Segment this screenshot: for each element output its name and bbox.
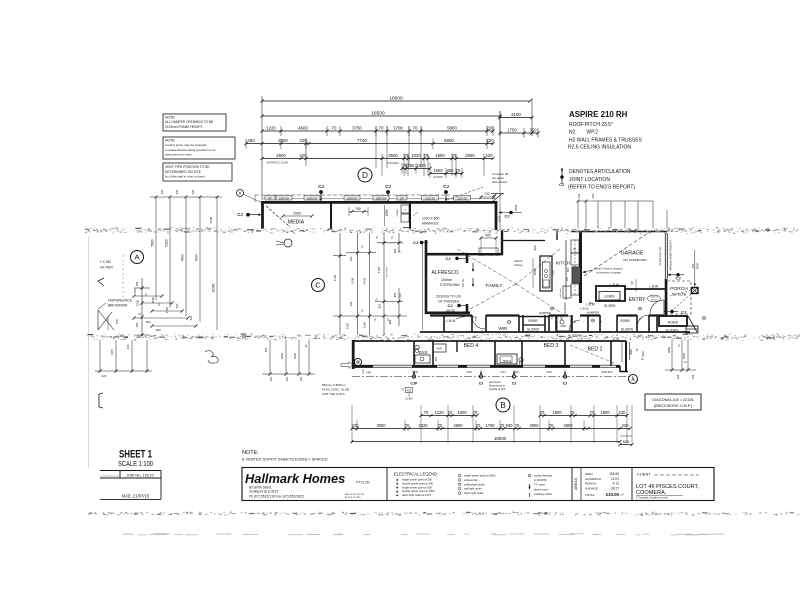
svg-text:6100: 6100 <box>165 239 169 246</box>
svg-text:12.01: 12.01 <box>611 477 619 481</box>
svg-text:o/hang: o/hang <box>514 263 523 267</box>
svg-text:70: 70 <box>500 423 505 428</box>
svg-text:220: 220 <box>676 374 680 379</box>
svg-text:220: 220 <box>189 315 193 320</box>
bedroom wing bottom wall <box>352 365 620 367</box>
svg-text:1800: 1800 <box>600 410 610 415</box>
svg-text:4160: 4160 <box>377 266 381 273</box>
svg-text:3500: 3500 <box>388 153 398 158</box>
svg-text:KITCHEN: KITCHEN <box>387 267 389 277</box>
linen cupboard <box>586 286 625 308</box>
svg-text:smoke detector: smoke detector <box>534 474 552 478</box>
extension line stubs between dimension rows <box>281 111 500 230</box>
svg-text:to exterior or spare: to exterior or spare <box>596 271 622 275</box>
svg-text:1258: 1258 <box>466 371 472 374</box>
svg-text:MJD. 21/07/15: MJD. 21/07/15 <box>122 494 150 499</box>
porch left wall <box>665 279 668 315</box>
section marker B bottom <box>496 398 510 412</box>
svg-text:70: 70 <box>540 410 545 415</box>
svg-text:ALFRESCO: ALFRESCO <box>585 477 602 481</box>
svg-text:SL/DRS: SL/DRS <box>527 328 540 332</box>
articulation joint legend note <box>559 168 635 191</box>
svg-text:180: 180 <box>566 276 569 281</box>
svg-text:220: 220 <box>619 410 627 415</box>
CJ marker garage right wall <box>668 273 685 280</box>
svg-text:400: 400 <box>485 234 491 238</box>
svg-text:CJ: CJ <box>443 184 449 189</box>
svg-text:MAIN: MAIN <box>585 472 593 476</box>
svg-text:isolating switch: isolating switch <box>534 492 553 496</box>
svg-text:LINEN: LINEN <box>605 295 616 299</box>
dimension row 16500 <box>260 111 501 136</box>
svg-text:SL/DRS: SL/DRS <box>621 328 634 332</box>
svg-text:wall oven: wall oven <box>560 288 562 298</box>
svg-text:L.B.W.: L.B.W. <box>446 319 456 323</box>
svg-text:2900: 2900 <box>453 423 463 428</box>
svg-text:CJ: CJ <box>559 183 564 187</box>
svg-text:NO SLAB: NO SLAB <box>672 293 686 297</box>
svg-text:Control joints may be required: Control joints may be required <box>165 143 207 147</box>
svg-text:BED 2: BED 2 <box>588 347 603 353</box>
svg-text:1800: 1800 <box>457 410 467 415</box>
svg-text:CJP: CJP <box>411 382 419 386</box>
svg-text:600: 600 <box>623 439 630 444</box>
entry note bubble <box>648 295 661 302</box>
garage room label <box>620 251 646 263</box>
svg-text:451: 451 <box>264 347 268 352</box>
dimension row 450 2450 220 7740 5800 220 <box>244 138 494 166</box>
svg-text:DH: DH <box>400 196 404 200</box>
dimension row 2100 right <box>498 112 533 119</box>
svg-text:1800 DH: 1800 DH <box>279 196 289 200</box>
alfresco walls <box>423 244 471 330</box>
left lower dim ladder <box>95 340 152 378</box>
svg-text:double power point at 1050: double power point at 1050 <box>402 489 435 493</box>
drawing title ASPIRE 210 RH <box>568 110 643 151</box>
hamper labels <box>539 302 599 331</box>
bottom dim extension verticals <box>352 405 632 443</box>
svg-text:(in 140w wall in robe or linen: (in 140w wall in robe or linen) <box>165 174 205 178</box>
svg-text:900: 900 <box>393 248 397 253</box>
svg-text:1800: 1800 <box>552 410 562 415</box>
svg-text:1008: 1008 <box>412 371 418 374</box>
svg-text:1060: 1060 <box>151 296 155 303</box>
svg-text:1500: 1500 <box>433 168 443 173</box>
svg-text:155.60: 155.60 <box>609 472 619 476</box>
bed2 below window <box>622 342 645 362</box>
svg-text:770: 770 <box>474 316 478 321</box>
svg-text:B: B <box>500 401 505 410</box>
sheet number <box>118 449 153 468</box>
svg-text:1200 X 600: 1200 X 600 <box>422 217 439 221</box>
note box control joints <box>163 137 235 159</box>
right side lower dim cluster <box>665 340 696 379</box>
svg-text:JOB No. 15210: JOB No. 15210 <box>126 472 154 477</box>
svg-text:2690: 2690 <box>465 153 475 158</box>
svg-text:m²: m² <box>621 493 625 497</box>
dimension row 1220 4600 70 3750 70 1700 70 5800 220 1750 350 <box>260 126 494 136</box>
svg-text:70: 70 <box>515 423 520 428</box>
svg-text:ASPIRE 210 RH: ASPIRE 210 RH <box>569 110 628 119</box>
svg-text:1218: 1218 <box>546 371 552 374</box>
media 2000 dimension <box>281 212 313 218</box>
bedroom partition walls <box>414 341 611 366</box>
dimension row 780 1020 and 1500 450 <box>400 163 463 179</box>
svg-text:down light outlet at 1070: down light outlet at 1070 <box>402 493 432 497</box>
svg-text:ALFRESCO: ALFRESCO <box>432 270 459 276</box>
svg-text:350: 350 <box>133 288 137 293</box>
bedroom window sill numbers <box>412 371 613 374</box>
entry rear wall LBW <box>610 279 665 292</box>
svg-text:1750: 1750 <box>507 128 517 133</box>
svg-text:220: 220 <box>269 376 273 381</box>
svg-text:BATH: BATH <box>503 359 511 363</box>
svg-text:ROBE: ROBE <box>668 321 679 325</box>
svg-text:4443: 4443 <box>363 277 367 284</box>
svg-text:TAP: TAP <box>366 371 371 375</box>
svg-text:70: 70 <box>448 410 453 415</box>
section marker D <box>358 168 372 182</box>
svg-text:1800 DH: 1800 DH <box>307 196 317 200</box>
family top wall segment <box>468 230 557 255</box>
svg-text:AREAS: AREAS <box>574 477 578 490</box>
svg-text:HAMPER: HAMPER <box>563 302 567 313</box>
svg-text:4800mm WIDE PANELIFT: 4800mm WIDE PANELIFT <box>669 239 673 270</box>
svg-text:1700: 1700 <box>485 423 495 428</box>
scan speckle band 2 <box>86 333 800 341</box>
main top wall <box>262 201 497 204</box>
svg-text:220: 220 <box>591 193 595 198</box>
svg-text:exhaust fan: exhaust fan <box>464 478 478 482</box>
svg-text:1241: 1241 <box>500 371 506 374</box>
svg-text:10300: 10300 <box>212 283 216 292</box>
svg-text:220: 220 <box>691 374 695 379</box>
svg-text:CJ: CJ <box>681 310 686 315</box>
svg-text:220: 220 <box>102 374 107 378</box>
svg-text:d/Japs: d/Japs <box>396 209 399 217</box>
svg-text:5800: 5800 <box>444 138 454 143</box>
svg-text:236 SD: 236 SD <box>461 279 465 288</box>
section marker A right small <box>629 375 638 384</box>
dimension 1285 vertical <box>385 205 390 226</box>
svg-text:C: C <box>315 281 321 290</box>
svg-text:CJ: CJ <box>413 240 418 245</box>
stair detail right end <box>686 316 698 333</box>
svg-text:JOINT LOCATION: JOINT LOCATION <box>569 177 610 183</box>
svg-text:70: 70 <box>332 126 337 131</box>
svg-text:70: 70 <box>405 423 410 428</box>
hallway top wall segments <box>430 316 666 317</box>
svg-text:2200: 2200 <box>209 216 213 223</box>
bottom dimension row main <box>350 423 631 430</box>
roof step corner detail <box>491 193 504 202</box>
svg-text:70: 70 <box>413 126 418 131</box>
scan speckle line 3 <box>87 512 799 516</box>
diagonal brickwork note box <box>645 394 701 410</box>
svg-text:GARAGE: GARAGE <box>585 486 598 490</box>
svg-text:CJ: CJ <box>385 184 391 189</box>
svg-text:single power point at 300: single power point at 300 <box>402 478 432 482</box>
svg-text:220: 220 <box>486 138 494 143</box>
svg-text:1950: 1950 <box>435 153 445 158</box>
svg-text:800: 800 <box>589 302 594 305</box>
svg-text:210.00: 210.00 <box>606 492 620 497</box>
hws slab note <box>322 383 349 396</box>
svg-text:2100: 2100 <box>511 112 521 117</box>
svg-text:PORCH: PORCH <box>670 286 688 292</box>
media right wall <box>330 203 332 229</box>
left bracket mark <box>99 393 103 408</box>
dimension row 2900 220 3500 70 1020 70 1950 70 2690 220 <box>260 153 494 176</box>
svg-text:BRD: BRD <box>696 263 700 269</box>
svg-text:1220: 1220 <box>266 126 276 131</box>
svg-text:1800 DH: 1800 DH <box>347 196 357 200</box>
bottom dimension row 16000 <box>350 436 633 446</box>
svg-text:350: 350 <box>135 322 139 327</box>
svg-text:phone point: phone point <box>534 487 548 491</box>
svg-text:220: 220 <box>175 189 179 194</box>
svg-text:ACN 14 94 2368: ACN 14 94 2368 <box>345 496 361 499</box>
hallway partition walls <box>444 315 657 332</box>
svg-text:800: 800 <box>146 320 151 324</box>
svg-text:70: 70 <box>473 410 478 415</box>
svg-text:2900: 2900 <box>529 423 539 428</box>
svg-text:450: 450 <box>247 138 255 143</box>
LBW label alfresco side <box>446 315 475 323</box>
svg-text:1950: 1950 <box>280 352 284 359</box>
svg-text:2370: 2370 <box>110 348 114 355</box>
manhole label <box>413 212 440 226</box>
window tag circle with leader <box>237 190 263 204</box>
cooker hood note <box>582 267 623 275</box>
svg-text:220: 220 <box>577 193 581 198</box>
svg-text:CLIENT: CLIENT <box>637 473 651 477</box>
leader to compaction note <box>447 172 509 200</box>
svg-text:220: 220 <box>191 189 195 194</box>
hallway bottom wall <box>420 331 690 333</box>
family hamper label and 400 dim <box>478 234 500 258</box>
CJ marker above top wall 3 <box>443 184 449 201</box>
svg-text:FAMILY: FAMILY <box>485 283 503 289</box>
feature face brickwork note <box>98 299 132 331</box>
svg-text:CEILING TO U/S: CEILING TO U/S <box>436 295 462 299</box>
svg-text:down light outlet: down light outlet <box>464 491 484 495</box>
areas table <box>574 472 624 497</box>
hall door arcs <box>472 315 649 331</box>
svg-text:AC: AC <box>641 358 645 361</box>
shower dimensions note <box>489 380 506 391</box>
svg-text:3750: 3750 <box>352 126 362 131</box>
svg-text:ALFRESCO SLAB: ALFRESCO SLAB <box>266 161 288 165</box>
svg-text:BRICKWORK: BRICKWORK <box>108 304 129 308</box>
scan faint line 4 <box>122 533 724 535</box>
svg-text:CJ: CJ <box>445 256 450 261</box>
left dashed guide and pier dim line <box>123 255 150 337</box>
svg-text:1200 r/h: 1200 r/h <box>650 296 659 299</box>
svg-text:3660: 3660 <box>629 349 633 355</box>
svg-text:ceiling light outlet: ceiling light outlet <box>464 482 485 486</box>
svg-text:VENT PIPE POSITION TO BE: VENT PIPE POSITION TO BE <box>165 165 210 169</box>
svg-text:8 VENTED SOFFIT SHEETS EVENLY: 8 VENTED SOFFIT SHEETS EVENLY SPACED <box>242 457 328 462</box>
garage left wall with pantry <box>566 232 581 303</box>
family hamper window box <box>479 248 498 254</box>
garage top dim ladder <box>577 193 668 228</box>
svg-text:268 SE: 268 SE <box>446 309 455 313</box>
svg-text:38.27: 38.27 <box>611 486 619 490</box>
svg-text:SCALE 1:100: SCALE 1:100 <box>118 459 153 468</box>
bedroom wing left wall with HWS <box>353 340 361 369</box>
svg-text:double power point at 300: double power point at 300 <box>402 481 433 485</box>
svg-text:Hallmark Homes: Hallmark Homes <box>245 471 345 486</box>
svg-text:L.B.W.: L.B.W. <box>649 285 659 289</box>
bed3 label <box>544 343 559 349</box>
svg-text:BED 3: BED 3 <box>544 343 559 349</box>
top wall right corner step <box>479 192 501 230</box>
svg-text:ENTRY: ENTRY <box>629 297 647 303</box>
svg-text:T.V. point: T.V. point <box>534 483 545 487</box>
client block <box>636 473 699 500</box>
svg-text:Ph.(07) 55312130 Fax.(07) 5: Ph.(07) 55312130 Fax.(07) 55310822 <box>249 495 304 499</box>
svg-text:440: 440 <box>126 344 130 349</box>
center lower dim cluster <box>262 340 315 381</box>
svg-text:R2.5 CEILING INSULATION: R2.5 CEILING INSULATION <box>568 145 631 151</box>
svg-text:CJ: CJ <box>237 212 243 217</box>
svg-text:220: 220 <box>160 189 164 194</box>
top wall window boxes with labels <box>263 195 496 200</box>
hws tiny labels <box>401 388 413 401</box>
porch pier dashed leaders <box>670 290 691 312</box>
svg-text:NOTE:: NOTE: <box>242 450 259 456</box>
svg-text:single power point at 3000: single power point at 3000 <box>464 474 496 478</box>
svg-text:H2 WALL FRAMES & TRUSSES: H2 WALL FRAMES & TRUSSES <box>569 138 643 144</box>
scan speckle band 1 <box>85 227 799 234</box>
svg-text:single power point at 500: single power point at 500 <box>402 485 432 489</box>
svg-text:350: 350 <box>691 263 695 268</box>
svg-text:2900: 2900 <box>563 423 573 428</box>
CJ marker alfresco bottom <box>446 303 466 313</box>
bottom dimension row upper <box>419 410 628 417</box>
svg-text:SHR: SHR <box>560 325 565 328</box>
svg-text:850: 850 <box>566 267 570 272</box>
CJ marker porch bottom <box>664 310 687 315</box>
brick pier label <box>100 260 113 270</box>
bedroom wing top wall <box>352 340 626 342</box>
svg-text:742: 742 <box>484 192 490 196</box>
media diagonal door line <box>266 206 290 227</box>
svg-text:dimensions to: dimensions to <box>489 383 506 387</box>
svg-text:70: 70 <box>570 410 575 415</box>
svg-text:CL/WC: CL/WC <box>405 398 413 401</box>
svg-text:SL/DRS: SL/DRS <box>433 175 443 179</box>
svg-text:MANHOLE: MANHOLE <box>422 222 440 226</box>
alfresco labels <box>432 270 465 304</box>
svg-text:(BRICKWORK O.M.P.): (BRICKWORK O.M.P.) <box>654 404 693 408</box>
nook wall with appliance boxes <box>396 203 410 229</box>
svg-text:1865: 1865 <box>514 204 518 211</box>
tap label bedroom wing <box>341 362 371 375</box>
svg-text:REF: REF <box>400 292 402 297</box>
soffit note <box>242 450 328 462</box>
svg-text:1820: 1820 <box>682 352 686 359</box>
bed4 label <box>464 343 479 349</box>
svg-text:D: D <box>362 171 368 180</box>
svg-text:NO STEPDOWN: NO STEPDOWN <box>623 258 646 262</box>
left edge angle bracket <box>98 278 104 286</box>
svg-text:(REFER TO ENG'S REPORT): (REFER TO ENG'S REPORT) <box>568 185 635 191</box>
svg-text:220: 220 <box>285 376 289 381</box>
svg-text:220: 220 <box>299 153 307 158</box>
svg-text:ENS: ENS <box>418 350 427 355</box>
svg-text:16000: 16000 <box>494 436 507 441</box>
svg-text:all shower: all shower <box>489 380 501 384</box>
svg-text:CJ: CJ <box>318 184 324 189</box>
svg-text:NOTE:: NOTE: <box>165 139 175 143</box>
svg-text:CJ: CJ <box>447 303 452 308</box>
svg-text:HAMPER: HAMPER <box>587 310 599 314</box>
svg-text:950: 950 <box>393 292 397 297</box>
svg-text:4148: 4148 <box>351 277 355 284</box>
note box vent pipe position <box>163 163 232 181</box>
svg-text:GARAGE: GARAGE <box>620 251 643 257</box>
WIR room label <box>474 316 508 331</box>
hallmark homes logo block <box>245 471 370 499</box>
svg-text:© Copyright, all rights reserv: © Copyright, all rights reserved. <box>636 497 669 500</box>
media left wall <box>261 201 264 229</box>
svg-text:AC: AC <box>684 361 688 364</box>
svg-text:70: 70 <box>456 168 461 173</box>
kitchen bench along garage wall <box>560 240 571 300</box>
ens label <box>418 350 427 355</box>
svg-text:7740: 7740 <box>357 138 367 143</box>
svg-text:750: 750 <box>355 207 361 211</box>
svg-text:5800: 5800 <box>151 239 155 246</box>
svg-text:CJ: CJ <box>563 382 568 386</box>
svg-text:3880: 3880 <box>667 346 671 353</box>
CJ marker at corner right <box>499 204 523 218</box>
CJ marker alfresco top <box>445 256 466 261</box>
svg-text:7690: 7690 <box>195 254 199 261</box>
porch dashed outline <box>667 281 691 314</box>
svg-text:1020: 1020 <box>416 163 426 168</box>
svg-text:CJ: CJ <box>512 382 517 386</box>
svg-text:HAMPER: HAMPER <box>539 311 551 315</box>
svg-text:PLAN CONC. SLAB: PLAN CONC. SLAB <box>322 388 349 392</box>
section marker A left <box>131 251 144 264</box>
bed2 ceiling dashed diagonal <box>570 345 614 363</box>
svg-text:800: 800 <box>156 328 161 332</box>
svg-text:wall light outlet: wall light outlet <box>464 487 482 491</box>
pulldown symbol upper <box>276 239 292 247</box>
svg-text:70: 70 <box>379 126 384 131</box>
svg-text:SL/DRS: SL/DRS <box>666 329 680 333</box>
CJ marker media left <box>237 212 261 217</box>
svg-text:to plasterboard ceiling (posit: to plasterboard ceiling (position to be <box>165 148 216 152</box>
svg-text:CJ: CJ <box>479 382 484 386</box>
svg-text:2000: 2000 <box>293 212 301 216</box>
roof overhang dashed line <box>255 195 450 202</box>
svg-text:ROBE: ROBE <box>528 319 538 323</box>
media room label <box>288 220 305 226</box>
svg-text:728: 728 <box>115 319 119 324</box>
svg-text:MEDIA: MEDIA <box>288 220 305 226</box>
family ceiling dashed lines <box>457 249 560 315</box>
svg-text:2900: 2900 <box>276 153 286 158</box>
bed2 label <box>588 347 603 353</box>
kitchen label <box>556 261 571 267</box>
title strip border <box>242 468 714 501</box>
bed2 right wall and corner <box>620 341 628 372</box>
svg-text:KITCH: KITCH <box>556 261 571 267</box>
